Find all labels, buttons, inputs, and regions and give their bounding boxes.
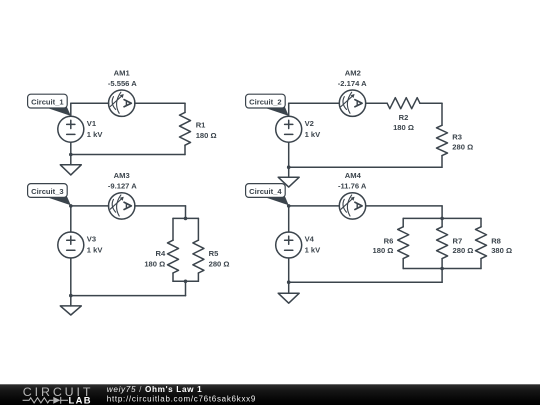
svg-text:180 Ω: 180 Ω xyxy=(144,260,165,269)
wire c4 parallel top bus xyxy=(403,217,481,219)
junction dot c3 top bus xyxy=(184,217,188,221)
svg-text:180 Ω: 180 Ω xyxy=(196,131,217,140)
svg-text:R5: R5 xyxy=(209,249,219,258)
svg-text:Circuit_1: Circuit_1 xyxy=(31,98,64,107)
svg-text:180 Ω: 180 Ω xyxy=(373,246,394,255)
wire c3: V3 bottom to node xyxy=(70,258,72,296)
wire c4: AM4 to feed rail xyxy=(366,205,442,207)
wire c3 right rail lower xyxy=(197,273,199,281)
resistor R1 xyxy=(180,112,191,145)
junction dot c3 bottom bus xyxy=(184,280,188,284)
svg-text:V1: V1 xyxy=(87,119,97,128)
wire c1 top-right: AM1 to R1 rail xyxy=(135,102,185,104)
net flag Circuit_4 xyxy=(246,184,289,206)
net flag Circuit_3 xyxy=(28,184,71,206)
junction dot c4 bottom bus xyxy=(440,267,444,271)
wire c3 left rail lower xyxy=(172,273,174,281)
wire c2 bottom xyxy=(289,166,442,168)
ammeter AM3 xyxy=(109,193,135,219)
svg-text:-5.556 A: -5.556 A xyxy=(108,79,137,88)
voltage source V3 xyxy=(58,232,84,258)
svg-text:280 Ω: 280 Ω xyxy=(209,260,230,269)
svg-text:Circuit_2: Circuit_2 xyxy=(249,98,282,107)
wire c2 right rail upper xyxy=(441,103,443,125)
resistor R6 xyxy=(398,227,409,259)
svg-text:1 kV: 1 kV xyxy=(87,246,104,255)
junction dot c2 bottom node xyxy=(287,165,291,169)
wire c1: node to ground stub xyxy=(70,155,72,165)
wire c1: V1 bottom to node xyxy=(70,142,72,154)
svg-text:Circuit_4: Circuit_4 xyxy=(249,187,282,196)
ammeter AM1 xyxy=(109,90,135,116)
junction dot c3 corner xyxy=(69,204,73,208)
wire c2: node to ground stub xyxy=(288,167,290,177)
svg-text:180 Ω: 180 Ω xyxy=(393,123,414,132)
wire c1 right rail upper xyxy=(184,103,186,112)
wire c3 right rail upper xyxy=(197,218,199,240)
junction dot c4 top bus xyxy=(440,217,444,221)
wire c3: node to ground stub xyxy=(70,296,72,306)
net flag Circuit_2 xyxy=(246,94,289,116)
wire c2: V2 bottom to node xyxy=(288,142,290,167)
svg-text:1 kV: 1 kV xyxy=(87,130,104,139)
wire c3 parallel top bus xyxy=(173,217,198,219)
resistor R5 xyxy=(193,240,204,273)
svg-text:1 kV: 1 kV xyxy=(305,130,322,139)
wire c4 left rail lower xyxy=(402,259,404,269)
ground c1 xyxy=(60,165,81,175)
svg-text:weiy75 / Ohm's Law 1: weiy75 / Ohm's Law 1 xyxy=(107,385,203,394)
wire c3 top-left: corner to AM3 xyxy=(71,205,109,207)
wire c4 left rail upper xyxy=(402,218,404,226)
svg-text:1 kV: 1 kV xyxy=(305,246,322,255)
wire c4 parallel bottom bus xyxy=(403,268,481,270)
svg-text:V3: V3 xyxy=(87,235,96,244)
wire c4 top-left: corner to AM4 xyxy=(289,205,340,207)
svg-text:380 Ω: 380 Ω xyxy=(491,246,512,255)
ammeter AM4 xyxy=(339,193,365,219)
resistor R8 xyxy=(476,227,487,259)
resistor R2 xyxy=(387,98,420,109)
wire c2: AM2 to R2 xyxy=(366,102,387,104)
net flag Circuit_1 xyxy=(28,94,71,116)
wire c4 mid rail upper xyxy=(441,218,443,226)
wire c3 feed rail xyxy=(185,206,187,219)
wire c3 drop from bottom bus xyxy=(185,281,187,295)
svg-text:http://circuitlab.com/c76t6sak: http://circuitlab.com/c76t6sak6kxx9 xyxy=(107,394,256,403)
svg-text:AM3: AM3 xyxy=(114,171,130,180)
ground c3 xyxy=(60,306,81,315)
wire c3 parallel bottom bus xyxy=(173,280,198,282)
svg-text:AM4: AM4 xyxy=(345,171,362,180)
ground c4 xyxy=(278,293,299,303)
ammeter AM2 xyxy=(339,90,365,116)
wire c1 top-left: corner to AM1 xyxy=(71,102,109,104)
svg-text:V2: V2 xyxy=(305,119,314,128)
resistor R3 xyxy=(437,125,448,155)
logo resistor-diode squiggle xyxy=(23,397,68,404)
svg-text:-9.127 A: -9.127 A xyxy=(108,182,137,191)
wire c1 bottom xyxy=(71,154,185,156)
svg-text:280 Ω: 280 Ω xyxy=(452,142,473,151)
wire c4 drop from bottom bus xyxy=(441,269,443,283)
wire c2 right rail lower xyxy=(441,156,443,168)
wire c4 feed rail xyxy=(441,206,443,219)
svg-text:R6: R6 xyxy=(384,236,394,245)
svg-text:V4: V4 xyxy=(305,235,315,244)
svg-text:R2: R2 xyxy=(399,113,409,122)
svg-text:-2.174 A: -2.174 A xyxy=(338,79,367,88)
wire c4 mid rail lower xyxy=(441,259,443,269)
voltage source V4 xyxy=(276,232,302,258)
wire c4 right rail upper xyxy=(480,218,482,226)
wire c4: node to ground stub xyxy=(288,282,290,293)
ground c2 xyxy=(278,177,299,187)
wire c3 left rail upper xyxy=(172,218,174,240)
junction dot c1 bottom node xyxy=(69,153,73,157)
wire c3 left: corner to V3 top xyxy=(70,206,72,232)
junction dot c3 bottom node xyxy=(69,294,73,298)
svg-text:280 Ω: 280 Ω xyxy=(453,246,474,255)
wire c1 right rail lower xyxy=(184,145,186,154)
resistor R7 xyxy=(437,227,448,259)
wire c1 left: corner to V1 top xyxy=(70,103,72,116)
svg-text:LAB: LAB xyxy=(69,394,92,405)
voltage source V2 xyxy=(276,116,302,142)
svg-text:R7: R7 xyxy=(453,236,463,245)
wire c4 left: corner to V4 top xyxy=(288,206,290,232)
svg-text:AM1: AM1 xyxy=(114,68,131,77)
junction dot c4 bottom node xyxy=(287,280,291,284)
wire c2: R2 to right rail xyxy=(420,102,442,104)
voltage source V1 xyxy=(58,116,84,142)
wire c3 bottom xyxy=(71,295,186,297)
svg-text:R1: R1 xyxy=(196,120,206,129)
wire c3: AM3 to feed rail xyxy=(135,205,186,207)
resistor R4 xyxy=(168,240,179,273)
svg-text:Circuit_3: Circuit_3 xyxy=(31,187,64,196)
wire c4 right rail lower xyxy=(480,259,482,269)
junction dot c4 corner xyxy=(287,204,291,208)
wire c2 left: corner to V2 top xyxy=(288,103,290,116)
wire c4: V4 bottom to node xyxy=(288,258,290,282)
svg-text:R4: R4 xyxy=(155,249,165,258)
svg-text:R3: R3 xyxy=(452,132,462,141)
wire c2 top-left: corner to AM2 xyxy=(289,102,340,104)
svg-text:R8: R8 xyxy=(491,236,501,245)
svg-text:AM2: AM2 xyxy=(345,68,361,77)
svg-text:-11.76 A: -11.76 A xyxy=(338,182,367,191)
wire c4 bottom xyxy=(289,281,442,283)
